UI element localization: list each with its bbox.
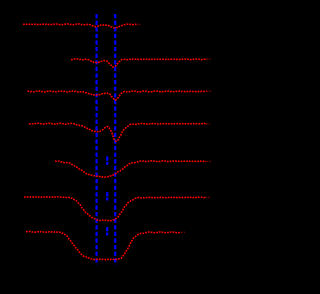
spectrum row 6 faint right tail (205, 196, 210, 198)
blue dashed guide line 2 (right, x=115.2) (114, 14, 116, 265)
spectrum row 5 (red dotted profile) (55, 161, 206, 177)
spectrum row 1 faint right tail (136, 23, 141, 25)
spectrum row 2 faint right tail (206, 58, 211, 60)
spectrum row 5 faint right tail (206, 160, 211, 162)
spectrum row 4 faint right tail (206, 123, 210, 125)
component tick marker row 6 (106, 192, 108, 200)
spectrum row 2 (red dotted profile) (71, 59, 206, 67)
spectrum row 3 (red dotted profile) (28, 91, 207, 100)
blue dashed guide line 1 (left, x=96.6) (95, 14, 97, 265)
component tick marker row 7 (106, 227, 108, 235)
spectrum row 1 (red dotted profile) (23, 24, 136, 28)
spectrum row 6 (red dotted profile) (24, 197, 205, 221)
spectrum row 7 (red dotted profile) (26, 231, 181, 260)
spectrum row 4 (red dotted profile) (29, 123, 206, 141)
spectrum row 3 faint right tail (207, 90, 212, 92)
spectrum row 7 faint right tail (181, 231, 185, 233)
component tick marker row 5 (106, 157, 108, 165)
